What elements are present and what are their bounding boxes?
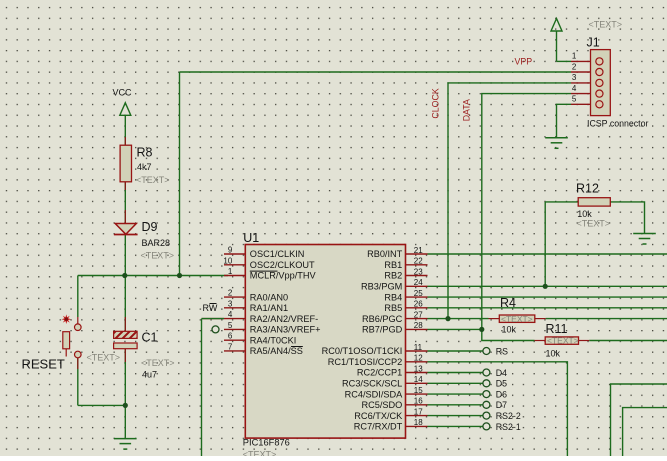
power VCC arrow xyxy=(120,103,131,116)
svg-text:21: 21 xyxy=(414,246,423,255)
pin stub right 21 xyxy=(406,253,428,255)
svg-text:RA5/AN4/SS: RA5/AN4/SS xyxy=(250,346,303,356)
svg-text:<TEXT>: <TEXT> xyxy=(136,175,170,185)
svg-text:9: 9 xyxy=(228,246,233,255)
wire J1 pin5 to ground xyxy=(557,104,572,137)
svg-text:R12: R12 xyxy=(576,182,599,196)
ground below J1 xyxy=(545,138,568,149)
svg-text:4u7: 4u7 xyxy=(142,369,157,379)
svg-text:10k: 10k xyxy=(502,324,517,334)
junction CLOCK/RB6 xyxy=(445,316,450,321)
wire RA2 down to bottom edge xyxy=(201,319,203,456)
overline SS xyxy=(291,346,303,348)
push button RESET xyxy=(75,324,82,331)
wire RC7 to D7 terminal xyxy=(428,404,483,406)
svg-text:5: 5 xyxy=(572,95,577,104)
svg-text:RB1: RB1 xyxy=(384,260,402,270)
svg-text:RC1/T1OSI/CCP2: RC1/T1OSI/CCP2 xyxy=(328,357,403,367)
svg-text:J1: J1 xyxy=(587,36,600,50)
svg-text:BAR28: BAR28 xyxy=(142,238,171,248)
svg-text:RB0/INT: RB0/INT xyxy=(367,249,403,259)
pin stub C1 top xyxy=(124,317,126,331)
svg-text:RB5: RB5 xyxy=(384,303,402,313)
wire RB6 row 27 to R4 xyxy=(428,318,489,320)
wire reset bottom contact down xyxy=(77,358,79,406)
resistor R11 body xyxy=(545,337,578,344)
wire RC4 to D4 terminal xyxy=(428,372,483,374)
svg-text:3: 3 xyxy=(228,299,233,308)
svg-text:RC3/SCK/SCL: RC3/SCK/SCL xyxy=(342,379,402,389)
svg-text:OSC1/CLKIN: OSC1/CLKIN xyxy=(250,249,305,259)
svg-text:<TEXT>: <TEXT> xyxy=(547,336,579,346)
pin stub left 9 xyxy=(224,253,245,255)
pin stub J1 xyxy=(571,71,591,73)
pin stub J1 xyxy=(571,82,591,84)
wire L-bend right lower 1 xyxy=(611,384,667,456)
svg-text:22: 22 xyxy=(414,257,423,266)
terminal circle D5 xyxy=(483,380,490,387)
pin stub right 23 xyxy=(406,275,428,277)
pin stub R4 left xyxy=(489,318,500,320)
svg-text:2: 2 xyxy=(228,289,233,298)
wire RC9 to RS2-1 terminal xyxy=(428,425,483,427)
ground below C1 xyxy=(114,439,137,450)
wire MCLR net to C1 xyxy=(124,276,126,332)
junction R12/RB3 xyxy=(543,284,548,289)
svg-text:4: 4 xyxy=(572,84,577,93)
wire reset to ground node xyxy=(78,404,126,406)
wire RB0 row 21 xyxy=(428,253,667,255)
wire power stem J1 xyxy=(556,31,558,61)
svg-text:RS2-2: RS2-2 xyxy=(496,411,521,421)
terminal circle D6 xyxy=(483,391,490,398)
svg-text:14: 14 xyxy=(414,375,423,384)
svg-text:RC0/T1OSO/T1CKI: RC0/T1OSO/T1CKI xyxy=(322,346,403,356)
svg-text:4k7: 4k7 xyxy=(137,162,152,172)
svg-text:RS2-1: RS2-1 xyxy=(496,422,521,432)
pin stub right 14 xyxy=(406,382,428,384)
IC U1 PIC16F876 body xyxy=(245,245,405,439)
connector J1 hole pin 5 xyxy=(596,101,603,108)
pin stub left 2 xyxy=(224,296,245,298)
reset button red actuator star xyxy=(62,314,72,324)
pin stub R11 right xyxy=(579,340,590,342)
pin stub D9 top xyxy=(124,210,126,224)
pin stub right 16 xyxy=(406,404,428,406)
pin stub left 3 xyxy=(224,307,245,309)
svg-text:10k: 10k xyxy=(546,349,561,359)
svg-text:D4: D4 xyxy=(496,368,507,378)
pin stub reset top xyxy=(77,317,79,324)
wire D9 to MCLR net xyxy=(124,235,126,276)
svg-text:10: 10 xyxy=(223,256,232,265)
svg-text:24: 24 xyxy=(414,278,423,287)
capacitor C1 bottom plate xyxy=(114,343,138,349)
svg-text:RC2/CCP1: RC2/CCP1 xyxy=(357,368,402,378)
wire RB4 row 25 xyxy=(428,296,667,298)
junction MCLR/D9/C1 xyxy=(122,273,127,278)
wire RC5 to D5 terminal xyxy=(428,382,483,384)
svg-text:RA2/AN2/VREF-: RA2/AN2/VREF- xyxy=(250,314,318,324)
svg-text:<TEXT>: <TEXT> xyxy=(141,251,175,261)
wire R12 left xyxy=(545,201,578,203)
svg-text:25: 25 xyxy=(414,289,423,298)
svg-text:PIC16F876: PIC16F876 xyxy=(243,437,290,447)
wire RC1 down to bottom edge xyxy=(428,362,568,456)
pin stub J1 xyxy=(571,103,591,105)
svg-text:26: 26 xyxy=(414,300,423,309)
pin stub left 1 xyxy=(224,275,245,277)
svg-text:MCLR/Vpp/THV: MCLR/Vpp/THV xyxy=(250,271,317,281)
svg-text:RA3/AN3/VREF+: RA3/AN3/VREF+ xyxy=(250,325,321,335)
svg-text:RC5/SDO: RC5/SDO xyxy=(361,400,402,410)
svg-text:17: 17 xyxy=(414,407,423,416)
wire RB3 row 24 xyxy=(428,285,667,287)
pin stub right 17 xyxy=(406,415,428,417)
svg-text:RC4/SDI/SDA: RC4/SDI/SDA xyxy=(345,389,404,399)
svg-text:2: 2 xyxy=(572,62,577,71)
svg-text:1: 1 xyxy=(228,267,233,276)
wire RC8 to RS2-2 terminal xyxy=(428,415,483,417)
wire R12 right to ground xyxy=(610,202,644,233)
svg-text:18: 18 xyxy=(414,418,423,427)
svg-text:RB6/PGC: RB6/PGC xyxy=(362,314,403,324)
terminal circle D7 xyxy=(483,401,490,408)
svg-text:28: 28 xyxy=(414,321,423,330)
pin stub C1 bottom xyxy=(124,349,126,362)
pin stub R8 top xyxy=(124,137,126,146)
wire VPP horizontal to J1 pin2 xyxy=(180,71,572,73)
svg-text:RB3/PGM: RB3/PGM xyxy=(361,282,402,292)
wire VCC to R8 xyxy=(124,115,126,145)
resistor R8 body xyxy=(120,145,131,182)
pin stub left 4 + wire xyxy=(202,318,246,320)
svg-text:<TEXT>: <TEXT> xyxy=(243,450,277,457)
pin stub right 11 xyxy=(406,350,428,352)
svg-text:RESET: RESET xyxy=(22,357,65,372)
pin stub right 27 xyxy=(406,318,428,320)
pin stub R4 right xyxy=(535,318,546,320)
svg-text:CLOCK: CLOCK xyxy=(430,88,440,118)
pin stub left 7 xyxy=(224,350,245,352)
junction MCLR/VPP xyxy=(177,273,182,278)
svg-text:7: 7 xyxy=(228,342,233,351)
svg-text:ICSP connector: ICSP connector xyxy=(587,119,649,129)
junction DATA/RB7 xyxy=(479,327,484,332)
wire RB7 row 28 xyxy=(428,328,482,330)
pin stub right 12 xyxy=(406,361,428,363)
svg-text:RW: RW xyxy=(203,303,218,313)
svg-text:<TEXT>: <TEXT> xyxy=(589,19,623,29)
svg-text:RB2: RB2 xyxy=(384,271,402,281)
wire R4 right to edge xyxy=(546,318,667,320)
svg-text:VPP: VPP xyxy=(515,57,533,67)
wire RC6 to D6 terminal xyxy=(428,393,483,395)
svg-text:D5: D5 xyxy=(496,379,507,389)
connector J1 hole pin 2 xyxy=(596,68,603,75)
svg-text:D6: D6 xyxy=(496,390,507,400)
terminal circle RS xyxy=(483,348,490,355)
pin stub R11 left xyxy=(535,340,546,342)
resistor R12 body xyxy=(578,198,610,206)
wire row28 down to R11 xyxy=(482,329,535,340)
pin stub right 22 xyxy=(406,264,428,266)
svg-text:OSC2/CLKOUT: OSC2/CLKOUT xyxy=(250,260,315,270)
pin stub right 18 xyxy=(406,425,428,427)
svg-text:RA4/T0CKI: RA4/T0CKI xyxy=(250,335,296,345)
pin stub right 28 xyxy=(406,328,428,330)
power arrow near J1 xyxy=(551,19,562,32)
svg-text:1: 1 xyxy=(572,52,577,61)
svg-text:RA0/AN0: RA0/AN0 xyxy=(250,292,288,302)
wire MCLR net horizontal xyxy=(78,275,228,277)
svg-text:DATA: DATA xyxy=(462,99,472,121)
wire R8 to D9 xyxy=(124,182,126,224)
svg-text:R11: R11 xyxy=(546,322,568,336)
terminal circle RS2-2 xyxy=(483,412,490,419)
pin stub left 5 xyxy=(224,328,245,330)
wire RB5 row 26 xyxy=(428,307,667,309)
diode D9 body xyxy=(115,224,136,235)
svg-text:3: 3 xyxy=(572,73,577,82)
terminal circle RS2-1 xyxy=(483,423,490,430)
svg-text:15: 15 xyxy=(414,386,423,395)
connector J1 hole pin 1 xyxy=(596,58,603,65)
pin stub R8 bottom xyxy=(124,182,126,190)
pin stub J1 xyxy=(571,60,591,62)
svg-text:RB7/PGD: RB7/PGD xyxy=(362,325,403,335)
pin stub right 24 xyxy=(406,285,428,287)
svg-text:27: 27 xyxy=(414,310,423,319)
junction C1/reset/ground xyxy=(123,403,128,408)
pin stub right 25 xyxy=(406,296,428,298)
svg-text:U1: U1 xyxy=(243,231,259,245)
pin stub reset bottom xyxy=(77,358,79,369)
connector J1 hole pin 3 xyxy=(596,79,603,86)
svg-text:<TEXT>: <TEXT> xyxy=(87,352,121,362)
pin stub J1 xyxy=(571,93,591,95)
wire L-bend right lower 2 xyxy=(623,408,667,456)
wire power to J1 pin1 xyxy=(557,60,572,62)
svg-text:RS: RS xyxy=(496,346,508,356)
svg-text:RB4: RB4 xyxy=(384,292,402,302)
svg-text:R4: R4 xyxy=(500,296,516,310)
svg-text:12: 12 xyxy=(414,354,423,363)
svg-text:R8: R8 xyxy=(137,146,153,160)
svg-text:C1: C1 xyxy=(142,331,158,345)
pin stub right 15 xyxy=(406,393,428,395)
svg-text:<TEXT>: <TEXT> xyxy=(141,358,175,368)
terminal circle D4 xyxy=(483,369,490,376)
wire CLOCK from J1 pin3 to RB6 xyxy=(448,83,571,319)
ground below R12 xyxy=(633,234,656,245)
wire RC0 to RS terminal xyxy=(428,350,483,352)
terminal circle pin 5 RA3 xyxy=(212,326,219,333)
wire R12 left down to row 24 xyxy=(544,202,546,286)
svg-text:D7: D7 xyxy=(496,400,507,410)
resistor R4 body xyxy=(499,315,535,322)
svg-text:<TEXT>: <TEXT> xyxy=(501,314,533,324)
wire C1 to ground node xyxy=(124,349,126,406)
svg-text:11: 11 xyxy=(414,343,423,352)
svg-text:13: 13 xyxy=(414,364,423,373)
wire RA2 horizontal xyxy=(202,318,225,320)
overline MCLR xyxy=(250,270,278,272)
wire reset top contact to MCLR xyxy=(77,276,79,318)
wire DATA from J1 pin4 to RB7 xyxy=(482,94,571,330)
svg-text:6: 6 xyxy=(228,332,233,341)
svg-text:RC6/TX/CK: RC6/TX/CK xyxy=(354,411,403,421)
svg-text:4: 4 xyxy=(228,310,233,319)
pin stub right 26 xyxy=(406,307,428,309)
wire VPP vertical xyxy=(179,72,181,276)
pin stub left 10 xyxy=(224,264,245,266)
connector J1 body xyxy=(591,50,611,116)
svg-text:<TEXT>: <TEXT> xyxy=(577,218,611,228)
wire ground stem C1 xyxy=(124,405,126,438)
pin stub right 13 xyxy=(406,372,428,374)
svg-text:RC7/RX/DT: RC7/RX/DT xyxy=(354,422,403,432)
svg-text:RA1/AN1: RA1/AN1 xyxy=(250,303,288,313)
svg-text:VCC: VCC xyxy=(113,88,133,98)
connector J1 hole pin 4 xyxy=(596,90,603,97)
pin stub left 6 xyxy=(224,339,245,341)
svg-text:23: 23 xyxy=(414,267,423,276)
wire R11 right to edge xyxy=(589,340,667,342)
svg-text:16: 16 xyxy=(414,397,423,406)
svg-text:5: 5 xyxy=(228,321,233,330)
svg-text:D9: D9 xyxy=(142,220,158,234)
